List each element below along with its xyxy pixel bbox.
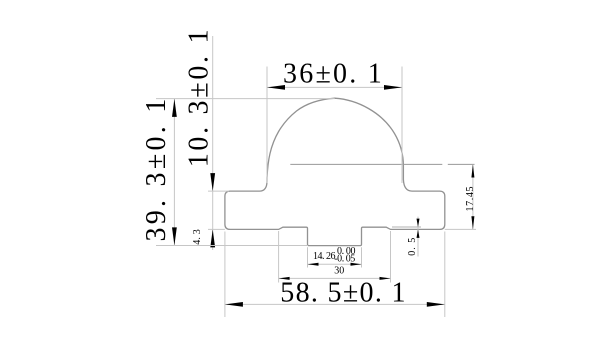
dim 58.5 extension line left bbox=[224, 232, 226, 318]
lip extension line (0.5 datum) bbox=[392, 226, 421, 228]
dim 14.26 dimension line bbox=[308, 263, 362, 265]
svg-text:0. 5: 0. 5 bbox=[407, 238, 418, 256]
dim 58.5 arrow left bbox=[225, 302, 243, 307]
dim 30 arrow right bbox=[380, 277, 391, 280]
dim 17.45 arrow top bbox=[471, 164, 474, 177]
svg-text:39. 3±0. 1: 39. 3±0. 1 bbox=[141, 97, 172, 242]
dim 17.45 dimension line bbox=[472, 164, 474, 229]
dim 30 dimension line bbox=[279, 277, 391, 279]
dim 39.3 arrow top bbox=[172, 99, 177, 117]
dim 0.5 dimension line bbox=[417, 217, 419, 257]
dim 36 arrow right bbox=[384, 85, 402, 90]
dim 10.3 arrow lower bbox=[210, 229, 215, 247]
svg-text:4. 3: 4. 3 bbox=[192, 229, 203, 245]
dim 58.5 extension line right bbox=[444, 232, 446, 318]
dim 14.26 arrow left bbox=[308, 263, 319, 266]
svg-text:-0. 05: -0. 05 bbox=[334, 253, 355, 264]
dim 30 arrow left bbox=[279, 277, 290, 280]
reference line inside dome (left segment) bbox=[290, 163, 442, 165]
dim 36 extension line right bbox=[401, 67, 403, 184]
ledge extension line left bbox=[208, 190, 229, 192]
dim 30 extension line left bbox=[278, 231, 280, 283]
dim 36 extension line left bbox=[266, 67, 268, 184]
dim 0.5 arrow upper bbox=[417, 219, 420, 228]
dim 58.5 dimension line bbox=[225, 303, 445, 305]
foot bottom extension line bbox=[156, 245, 308, 247]
dim 30 extension line right bbox=[390, 231, 392, 283]
dim 58.5 arrow right bbox=[427, 302, 445, 307]
dim 36 dimension line bbox=[267, 86, 402, 88]
apex extension line bbox=[156, 98, 335, 100]
dim 14.26 extension line left bbox=[307, 247, 309, 267]
reference line inside dome (right segment) bbox=[448, 163, 475, 165]
dim 14.26 extension line right bbox=[361, 247, 363, 267]
dim 39.3 arrow bottom bbox=[172, 227, 177, 245]
bottom face extension line right bbox=[445, 228, 476, 230]
dim 0.5 arrow lower bbox=[417, 229, 420, 238]
bottom face extension line left bbox=[208, 228, 225, 230]
svg-text:10. 3±0. 1: 10. 3±0. 1 bbox=[183, 27, 214, 167]
dim 36 arrow left bbox=[267, 85, 285, 90]
svg-text:17.45: 17.45 bbox=[465, 187, 476, 212]
dim 10.3 arrow upper bbox=[210, 173, 215, 191]
lens body profile outline bbox=[225, 98, 445, 245]
dim 14.26 arrow right bbox=[351, 263, 362, 266]
dim 17.45 arrow bottom bbox=[471, 216, 474, 229]
svg-text:58. 5±0. 1: 58. 5±0. 1 bbox=[280, 278, 406, 309]
dim 10.3 dimension line bbox=[212, 36, 214, 250]
dim 39.3 dimension line bbox=[173, 99, 175, 246]
svg-text:14. 26: 14. 26 bbox=[313, 251, 336, 262]
svg-text:30: 30 bbox=[334, 265, 344, 276]
